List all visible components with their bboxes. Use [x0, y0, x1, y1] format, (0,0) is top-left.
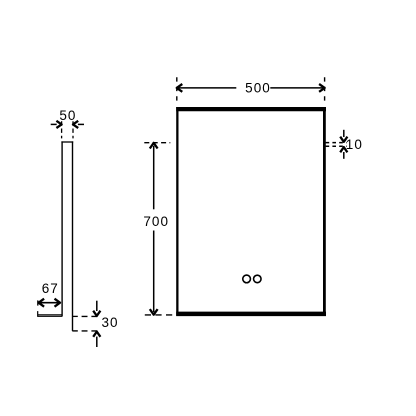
30 dim arrow up stem [96, 337, 98, 347]
700 dim arrow down [150, 309, 158, 315]
side profile: bottom shelf lower line [38, 315, 63, 317]
sensor circle left [243, 275, 251, 283]
500 dim line left segment [179, 87, 237, 89]
500 dim: right extension (dashed) [324, 77, 326, 104]
700 dim arrow up [150, 143, 158, 149]
67 dim left tick [37, 300, 39, 305]
svg-text:50: 50 [59, 108, 76, 123]
500 dim arrow left [177, 84, 183, 92]
side profile: bottom foot stub [72, 330, 78, 332]
10 dim: upper dashed line [326, 142, 347, 144]
67 dim arrow right head [55, 299, 61, 307]
sensor circle right [254, 275, 262, 283]
svg-text:30: 30 [101, 315, 118, 330]
10 dim: lower dashed line [326, 145, 347, 147]
10 dim arrow up stem [343, 152, 345, 159]
side profile: shelf left lip [37, 311, 39, 317]
67 dim arrow left head [39, 299, 45, 307]
side profile: bottom shelf upper line [38, 314, 63, 316]
50 dim arrow right head [73, 121, 78, 128]
50 dim: right extension (dashed) [72, 121, 74, 138]
50 dim arrow left head [56, 121, 61, 128]
mirror front view: bottom edge [176, 312, 326, 317]
side profile: top cap [61, 141, 73, 143]
500 dim: left extension (dashed) [176, 77, 178, 104]
mirror front view: top edge [176, 107, 326, 111]
mirror front view: right edge [323, 107, 326, 316]
30 dim arrow down stem [96, 301, 98, 311]
500 dim arrow right [319, 84, 325, 92]
50 dim: left extension (dashed) [61, 121, 63, 138]
67 dim line [40, 302, 60, 304]
30 dim arrow down head [93, 311, 100, 316]
mirror front view: left edge [176, 107, 178, 316]
50 dim arrow right stem [78, 123, 84, 125]
side profile: rear stub at shelf level [72, 315, 78, 317]
700 dim line lower segment [153, 231, 155, 313]
10 dim arrow down head [340, 137, 347, 142]
30 dim: lower dashed line [82, 330, 100, 332]
500 dim line right segment [270, 87, 323, 89]
700 dim: top extension (dashed) [144, 142, 170, 144]
svg-text:10: 10 [346, 137, 363, 152]
700 dim: bottom extension (dashed) [145, 314, 174, 316]
side profile: right face [72, 141, 74, 331]
10 dim arrow down stem [343, 130, 345, 137]
30 dim: upper dashed line [82, 315, 100, 317]
svg-text:500: 500 [245, 80, 271, 95]
30 dim arrow up head [93, 332, 100, 337]
svg-text:700: 700 [143, 214, 169, 229]
10 dim arrow up head [340, 147, 347, 152]
side profile: left face [61, 141, 63, 316]
svg-text:67: 67 [42, 281, 59, 296]
50 dim arrow left stem [51, 123, 57, 125]
700 dim line upper segment [153, 146, 155, 210]
